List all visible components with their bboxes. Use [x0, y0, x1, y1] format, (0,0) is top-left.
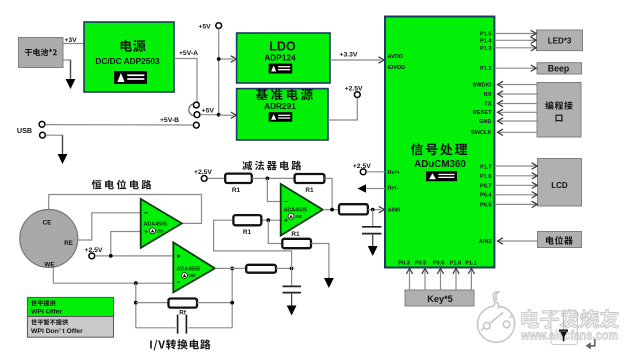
capacitor filter C2 [283, 286, 302, 292]
svg-text:RESET: RESET [473, 110, 492, 116]
wire reference +2.5V output [328, 98, 357, 121]
svg-text:P0.4: P0.4 [480, 193, 492, 199]
svg-text:P1.0: P1.0 [450, 261, 462, 267]
resistor U2 output [246, 265, 276, 273]
svg-text:250: 250 [295, 214, 303, 219]
wire +5V-B from USB to jumper [45, 124, 193, 126]
Beep box [537, 63, 582, 74]
wire Rf right connection [197, 302, 232, 304]
ADI mark U3 [288, 213, 294, 219]
svg-text:R1: R1 [291, 231, 300, 238]
wire MCU to LCD [494, 194, 536, 196]
wire node B to R1d [268, 220, 282, 243]
label 恒电位电路 [92, 180, 152, 190]
wire programming header to MCU [499, 93, 537, 95]
svg-text:+2.5V: +2.5V [353, 163, 371, 170]
svg-text:P1.4: P1.4 [480, 38, 492, 44]
svg-text:ADA4505: ADA4505 [177, 267, 201, 273]
junction AIN node [371, 208, 375, 212]
programming header box 编程接口 [537, 83, 581, 138]
USB terminal pins [39, 121, 45, 127]
wire MCU to LED [494, 33, 535, 35]
wire MCU Ref- arrow [366, 188, 385, 190]
svg-text:ADP124: ADP124 [264, 53, 296, 63]
wire LDO +3.3V to MCU [330, 59, 381, 61]
svg-text:RX: RX [484, 92, 492, 98]
potentiometer box 电位器 [538, 232, 582, 248]
LED*3 box [537, 30, 583, 51]
node +2.5V reference terminal [354, 92, 360, 98]
resistor R1a [225, 174, 252, 183]
wire +2.5V to R1a [208, 177, 226, 179]
svg-text:ADR291: ADR291 [264, 101, 296, 111]
wire parallel capacitor right [188, 327, 232, 329]
ADI logo power [114, 71, 147, 84]
wire +5V rail vertical [218, 29, 220, 115]
MCU block 信号处理 ADuCM360 [385, 17, 494, 268]
wire programming header to MCU [499, 111, 537, 113]
svg-text:P1.1: P1.1 [465, 261, 477, 267]
ADI mark U1 [150, 228, 156, 234]
svg-text:CE: CE [43, 219, 52, 226]
svg-text:250: 250 [157, 228, 165, 233]
wire WE node down to Rf [135, 283, 137, 328]
svg-text:R1: R1 [232, 187, 241, 194]
svg-text:Beep: Beep [548, 64, 570, 74]
wire MCU to LCD [494, 165, 536, 167]
watermark url [520, 328, 618, 343]
wire potentiometer to MCU AIN2 [499, 240, 538, 242]
svg-text:R1: R1 [305, 187, 314, 194]
op-amp U3 ADA4505 [281, 184, 323, 236]
svg-text:Ref-: Ref- [388, 186, 399, 192]
junction node B [266, 218, 270, 222]
svg-text:DC/DC ADP2503: DC/DC ADP2503 [95, 56, 160, 66]
wire U2 output to RC filter [215, 267, 246, 269]
wire programming header to MCU [499, 131, 537, 133]
wire AIN series resistor to MCU [368, 209, 381, 211]
junction rail/LDO [217, 57, 221, 61]
wire key to MCU [424, 271, 426, 291]
svg-text:P1.7: P1.7 [480, 165, 492, 171]
svg-text:GND: GND [479, 119, 491, 125]
ADI mark U2 [182, 273, 188, 279]
wire MCU to LED [494, 39, 535, 41]
legend box WPI offer [27, 297, 113, 316]
svg-text:250: 250 [189, 273, 197, 278]
wire Rf left connection [136, 302, 169, 304]
wire R1b to U3 output [324, 178, 332, 209]
svg-text:+3.3V: +3.3V [340, 52, 358, 59]
reference block 基准电源 ADR291 [237, 89, 328, 140]
ground USB [62, 135, 64, 155]
op-amp U1 ADA4505 [141, 199, 182, 248]
capacitor parallel to Rf [178, 315, 187, 334]
wire parallel capacitor left [136, 327, 176, 329]
resistor R1b feedback [295, 174, 325, 183]
wire node A to U3 inverting input [267, 178, 280, 201]
wire op-amp U1 output feedback to CE [49, 195, 202, 224]
wire AIN node to capacitor [372, 210, 374, 226]
wire U2 output node vertical [231, 268, 233, 327]
svg-text:Key*5: Key*5 [427, 294, 453, 304]
svg-text:AIN0: AIN0 [388, 208, 401, 214]
wire key to MCU [455, 271, 457, 291]
svg-text:LCD: LCD [551, 181, 568, 190]
watermark caret pole [563, 313, 565, 330]
wire rail to reference block [219, 114, 234, 116]
wire MCU to LED [494, 47, 535, 49]
junction Rf right [230, 301, 234, 305]
Key*5 box [405, 290, 474, 306]
wire programming header to MCU [499, 120, 537, 122]
wire R1a to node A [252, 177, 295, 179]
wire node C to filter capacitor [291, 268, 293, 286]
ADI logo reference [269, 112, 293, 122]
wire key to MCU [409, 271, 411, 291]
ground battery [70, 60, 72, 80]
watermark textbox outline [551, 311, 578, 345]
wire MCU to LCD [494, 203, 536, 205]
watermark caret mark [559, 329, 568, 331]
svg-text:SWDIO: SWDIO [473, 83, 493, 89]
watermark logo circle [477, 292, 514, 342]
junction WE node [134, 281, 138, 285]
junction U3 output feedback [330, 208, 334, 212]
resistor R1d [282, 239, 311, 248]
wire MCU to LCD [494, 175, 536, 177]
wire +5V-A power to jumper [174, 59, 197, 102]
wire WE to U2 inverting input [53, 267, 173, 283]
wire MCU to Beep [494, 67, 535, 69]
svg-text:WPI Don’ t Offer: WPI Don’ t Offer [31, 328, 83, 335]
wire node C to subtractor input R1 [214, 220, 292, 268]
svg-text:R1: R1 [243, 229, 252, 236]
label 减法器电路 [242, 161, 301, 171]
svg-text:+2.5V: +2.5V [194, 169, 212, 176]
wire +2.5V to U1 and U2 noninverting inputs [95, 255, 173, 257]
svg-text:P1.2: P1.2 [480, 66, 492, 72]
svg-text:P0.5: P0.5 [480, 202, 492, 208]
node +2.5V Ref terminal [360, 169, 366, 175]
node +5V top terminal [216, 23, 222, 29]
ADI logo MCU [426, 171, 457, 181]
svg-text:P1.5: P1.5 [480, 32, 492, 38]
svg-text:RE: RE [64, 240, 73, 247]
svg-text:P1.3: P1.3 [480, 46, 492, 52]
svg-text:IOVDD: IOVDD [388, 65, 406, 71]
wire programming header to MCU [499, 84, 537, 86]
svg-text:ADA4505: ADA4505 [144, 222, 168, 228]
resistor AIN series [339, 204, 368, 214]
svg-text:WPI Offer: WPI Offer [31, 309, 62, 316]
svg-text:+5V-A: +5V-A [179, 50, 198, 57]
svg-text:AIN2: AIN2 [479, 239, 492, 245]
svg-text:ADA4505: ADA4505 [284, 207, 308, 213]
svg-text:+2.5V: +2.5V [85, 247, 103, 254]
LCD box [538, 159, 582, 207]
svg-text:USB: USB [17, 126, 32, 135]
ADI logo LDO [269, 64, 293, 74]
ground AIN capacitor [372, 234, 374, 247]
svg-text:P0.7: P0.7 [480, 183, 492, 189]
svg-text:TX: TX [484, 102, 491, 108]
svg-text:LDO: LDO [269, 40, 296, 54]
svg-text:www.elecfans.com: www.elecfans.com [520, 328, 618, 343]
svg-text:P1.6: P1.6 [480, 174, 492, 180]
wire R1d to ground [311, 244, 329, 278]
jumper shunt arc [189, 104, 194, 116]
wire resistor to node C [276, 267, 292, 269]
wire battery to ground [63, 60, 71, 77]
wire jumper center to rail [200, 114, 219, 116]
electrochemical sensor circle [20, 210, 78, 268]
power block 电源 DC/DC ADP2503 [84, 22, 174, 92]
label I/V转换电路 [150, 339, 210, 350]
svg-text:+5V: +5V [198, 24, 211, 31]
capacitor AIN filter [362, 227, 382, 234]
wire key to MCU [470, 271, 472, 291]
watermark return arrow [590, 339, 595, 346]
svg-text:P0.3: P0.3 [398, 261, 410, 267]
resistor Rf [169, 299, 198, 308]
svg-text:+5V-B: +5V-B [160, 117, 179, 124]
watermark text 电子发烧友 [522, 309, 619, 328]
op-amp U2 ADA4505 [173, 242, 215, 292]
svg-text:P0.5: P0.5 [415, 261, 427, 267]
wire +3V battery to power [63, 43, 84, 45]
junction node C [290, 267, 294, 271]
node +2.5V left terminal [89, 253, 95, 259]
jumper 3-pin header [193, 102, 199, 108]
svg-text:+2.5V: +2.5V [345, 85, 363, 92]
svg-text:SWCLK: SWCLK [471, 130, 492, 136]
wire rail to LDO [219, 58, 234, 60]
wire key to MCU [440, 271, 442, 291]
wire +2.5V to MCU Ref+ [366, 171, 385, 173]
ground R1d [328, 278, 330, 280]
LDO block ADP124 [237, 33, 330, 83]
svg-text:AVDD: AVDD [388, 54, 403, 60]
junction Rf left [134, 301, 138, 305]
battery box 干电池*2 [19, 38, 64, 68]
svg-text:+5V: +5V [202, 107, 215, 114]
junction rail/reference [217, 113, 221, 117]
wire programming header to MCU [499, 103, 537, 105]
wire USB ground [46, 135, 63, 152]
svg-text:LED*3: LED*3 [548, 37, 572, 46]
ground C2 [291, 293, 293, 307]
svg-text:+3V: +3V [64, 37, 77, 44]
junction U2 output [230, 267, 234, 271]
wire middle R1c to U3 [261, 219, 280, 221]
svg-text:ADuCM360: ADuCM360 [414, 159, 466, 170]
wire RE to U1 inverting input [78, 213, 141, 240]
svg-text:P0.6: P0.6 [433, 261, 445, 267]
node +2.5V subtractor terminal [201, 176, 207, 182]
wire U3 output [323, 209, 339, 211]
wire MCU to LCD [494, 184, 536, 186]
junction node A [266, 177, 270, 181]
resistor R1c [233, 215, 261, 225]
svg-text:Ref+: Ref+ [388, 170, 401, 176]
junction +2.5V bias [109, 254, 113, 258]
